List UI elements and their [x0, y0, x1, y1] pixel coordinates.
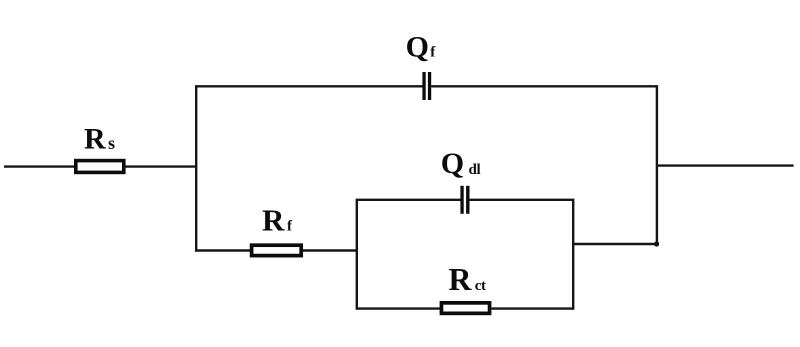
wire top-right segment and outer right vertical	[431, 86, 657, 244]
wire Rs to node A	[124, 165, 196, 167]
resistor Rct	[441, 303, 489, 314]
wire Rf to inner box	[303, 249, 358, 251]
svg-text:s: s	[108, 133, 115, 153]
resistor Rf	[252, 245, 302, 255]
label Qf	[406, 30, 437, 63]
wire output lead	[657, 164, 794, 166]
svg-text:dl: dl	[469, 162, 481, 178]
wire node A to Rf	[195, 249, 250, 251]
svg-text:R: R	[448, 261, 472, 297]
svg-text:ct: ct	[475, 278, 486, 294]
label Qdl	[441, 147, 481, 180]
wire inner box to node B	[573, 243, 657, 245]
capacitor Qf	[422, 72, 431, 100]
svg-text:R: R	[84, 122, 106, 155]
svg-text:Q: Q	[406, 30, 429, 63]
svg-text:R: R	[262, 202, 285, 237]
resistor Rs	[76, 161, 124, 173]
capacitor Qdl	[460, 186, 469, 214]
node B junction dot	[654, 241, 659, 246]
wire inner loop left vertical and top-left segment	[357, 200, 461, 310]
label Rct	[448, 261, 486, 297]
label Rs	[84, 122, 115, 155]
label Rf	[262, 202, 293, 237]
wire inner top-right segment and inner right vertical	[470, 200, 574, 310]
svg-text:f: f	[287, 218, 293, 234]
wire inner bottom right segment	[491, 307, 573, 309]
wire input lead	[4, 165, 75, 167]
svg-text:f: f	[430, 44, 436, 60]
wire outer loop left vertical and top-left segment	[196, 86, 422, 251]
wire inner bottom left segment	[357, 307, 440, 309]
svg-text:Q: Q	[441, 147, 464, 180]
